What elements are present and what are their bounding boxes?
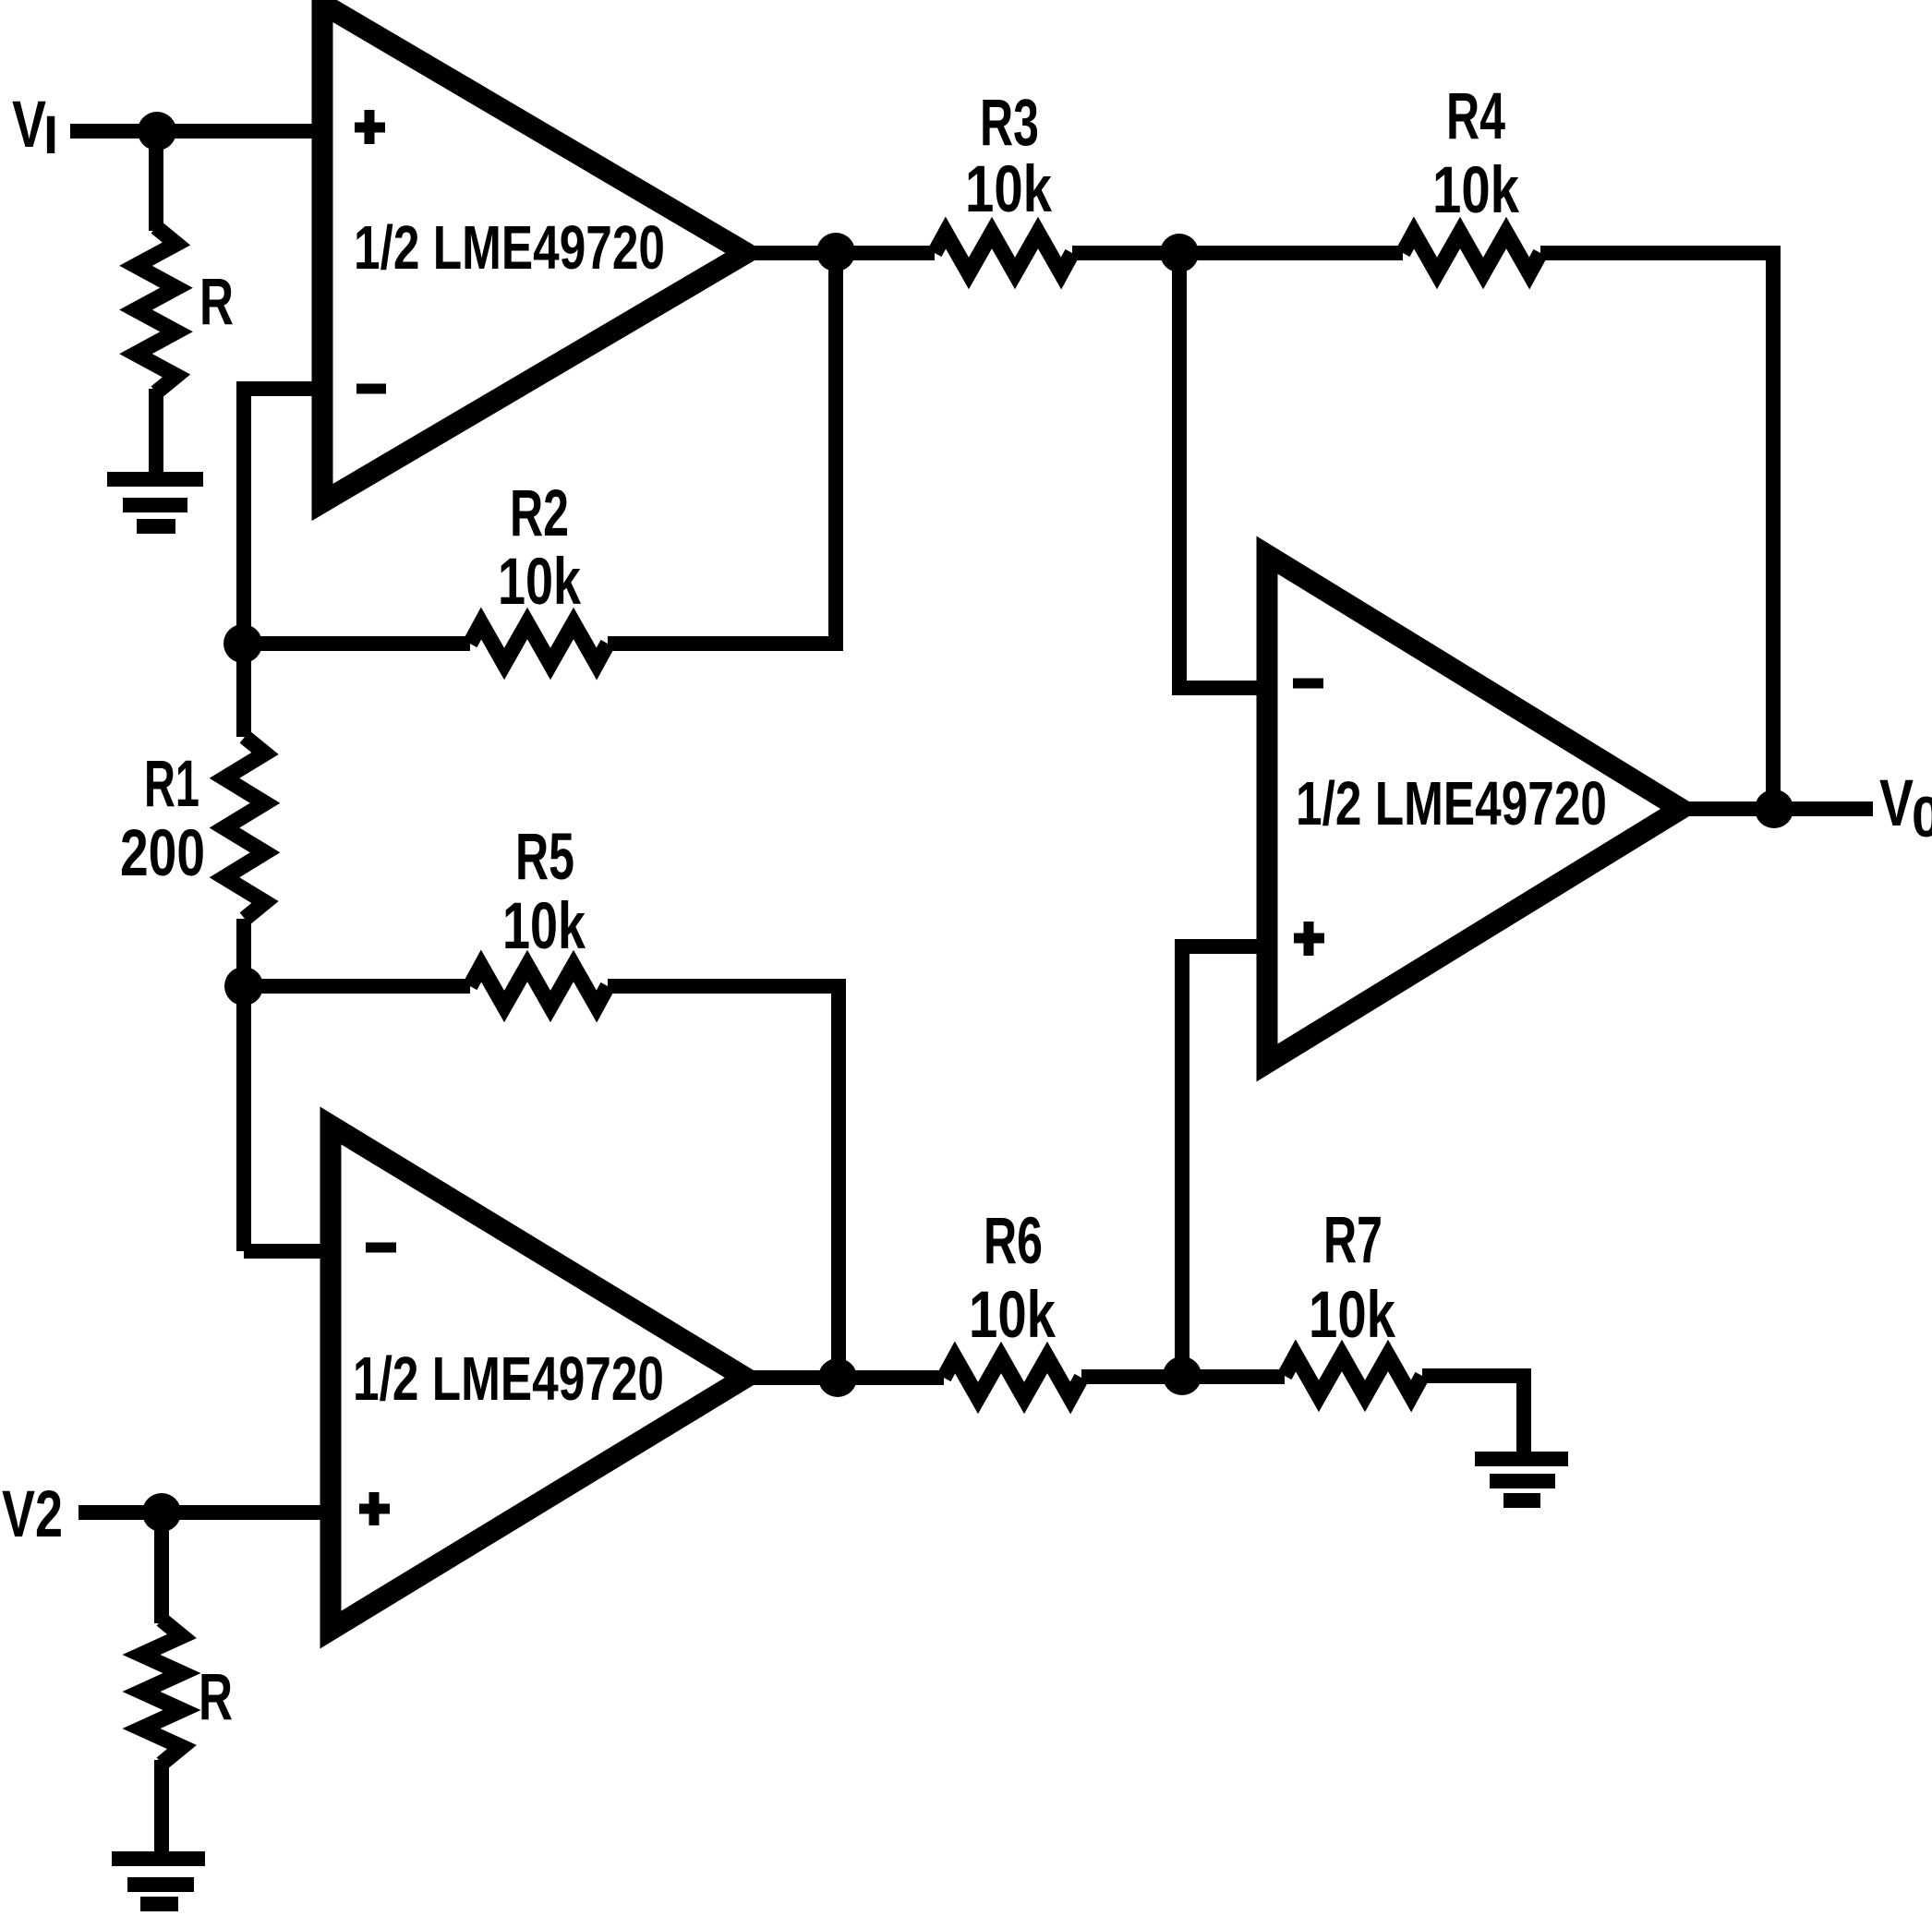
svg-text:10k: 10k: [969, 1279, 1056, 1352]
node R3 R4 junction: [1160, 234, 1199, 272]
node VI junction: [138, 112, 176, 151]
svg-text:1/2 LME49720: 1/2 LME49720: [353, 1344, 664, 1414]
wire U2A output: [745, 1370, 944, 1385]
node U2A output junction: [818, 1358, 857, 1397]
wire plus vertical from R6R7 node to U1B: [1182, 946, 1267, 1376]
ground (bottom left): [112, 1859, 205, 1904]
pin + label U2A: [359, 1492, 390, 1525]
resistor R2: [470, 623, 608, 664]
svg-text:R1: R1: [144, 748, 199, 821]
svg-text:1/2 LME49720: 1/2 LME49720: [1296, 769, 1607, 838]
wire R5 left lead: [244, 979, 470, 994]
svg-text:R4: R4: [1446, 80, 1505, 153]
node R6 R7 junction: [1163, 1356, 1201, 1395]
wire U2A inverting input: [244, 1244, 331, 1259]
ground (top left): [107, 479, 203, 526]
resistor R7: [1285, 1356, 1422, 1396]
svg-text:10k: 10k: [965, 153, 1052, 226]
node U1A output junction: [816, 233, 855, 271]
svg-text:R: R: [199, 1661, 233, 1734]
wire V2 input lead: [78, 1505, 331, 1520]
svg-text:I: I: [43, 105, 58, 165]
wire R1 bottom to op-amp U2A minus corner: [236, 919, 251, 1251]
node VO junction: [1755, 789, 1793, 828]
resistor R3: [935, 233, 1072, 273]
svg-text:R6: R6: [984, 1205, 1043, 1278]
wire VI junction down to R: [149, 124, 163, 231]
svg-text:1/2 LME49720: 1/2 LME49720: [354, 213, 665, 283]
svg-text:200: 200: [120, 817, 205, 890]
wire R3 to R4: [1072, 246, 1403, 260]
wire U1B output: [1681, 801, 1873, 816]
node R2 junction: [223, 624, 262, 663]
node VO output label: [1879, 767, 1932, 850]
pin - label U1B: [1293, 679, 1323, 689]
wire R2 left lead: [243, 636, 470, 651]
node R5 junction: [224, 967, 263, 1006]
svg-text:10k: 10k: [1432, 154, 1519, 227]
wire R to ground: [149, 389, 163, 476]
wire R4 right to output corner: [1540, 253, 1773, 809]
pin - label U1A: [356, 384, 386, 394]
svg-text:10k: 10k: [498, 546, 581, 619]
wire R7 right to ground corner: [1422, 1376, 1524, 1454]
node V2 junction: [142, 1493, 181, 1532]
resistor R1: [224, 737, 265, 919]
op-amp U1B triangle: [1267, 555, 1681, 1063]
svg-text:R2: R2: [510, 477, 569, 550]
svg-text:R3: R3: [980, 87, 1039, 160]
svg-text:10k: 10k: [1309, 1279, 1395, 1352]
svg-text:0: 0: [1912, 786, 1932, 850]
wire VI input lead: [70, 124, 322, 139]
svg-text:10k: 10k: [502, 890, 586, 963]
wire R6 to R7: [1081, 1369, 1285, 1384]
wire R5 right lead down to U2A output node: [608, 986, 839, 1378]
op-amp U1A triangle: [322, 4, 746, 502]
node VI input label: [12, 89, 58, 165]
svg-text:V: V: [1879, 767, 1914, 840]
pin + label U1A: [355, 110, 385, 144]
wire V2 junction down to R: [154, 1505, 169, 1623]
svg-text:R: R: [199, 266, 234, 339]
svg-text:R5: R5: [515, 821, 574, 894]
wire R to ground (bottom): [154, 1760, 169, 1854]
ground (right): [1475, 1459, 1568, 1500]
resistor R5: [470, 966, 608, 1006]
svg-text:V: V: [12, 89, 46, 162]
svg-text:V2: V2: [2, 1478, 63, 1551]
svg-text:R7: R7: [1323, 1204, 1383, 1277]
wire R2 right lead to feedback corner: [608, 252, 836, 644]
resistor R (top): [136, 227, 176, 392]
wire U1A inverting input: [244, 381, 322, 396]
resistor R6: [944, 1357, 1081, 1398]
pin + label U1B: [1294, 922, 1324, 956]
resistor R4: [1403, 233, 1540, 273]
resistor R (bottom): [141, 1620, 182, 1764]
pin - label U2A: [366, 1243, 396, 1253]
op-amp U2A triangle: [331, 1126, 745, 1630]
wire minus vertical from R3R4 node to U1B: [1179, 253, 1267, 688]
wire U1A output: [746, 246, 935, 260]
wire feedback vertical (minus input down to R5 node): [236, 381, 251, 737]
